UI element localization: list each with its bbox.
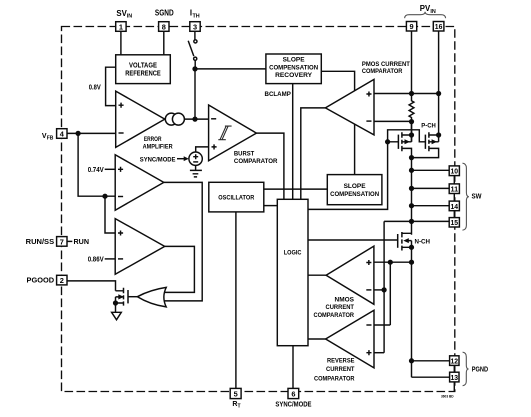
svg-text:PMOS CURRENT: PMOS CURRENT	[362, 61, 411, 68]
pin 11	[449, 184, 459, 194]
pmos current comparator	[325, 79, 374, 134]
node plus-rail pin16 junction	[437, 92, 441, 96]
label REVERSE CURRENT COMPARATOR	[314, 358, 355, 383]
svg-text:0.74V: 0.74V	[88, 167, 104, 174]
wire PGND to pin 12	[412, 360, 450, 362]
wire reverse comparator minus input	[374, 324, 390, 326]
ground triangle below pgood transistor	[112, 312, 122, 320]
wire burst output to logic	[256, 133, 284, 199]
svg-text:COMPARATOR: COMPARATOR	[234, 158, 278, 165]
ground below summing circle	[190, 165, 202, 177]
pin 12	[450, 356, 459, 366]
pin 2	[57, 275, 67, 285]
pmos power transistor right	[412, 132, 439, 157]
wire logic to pmos gate	[308, 142, 388, 210]
pin 8	[159, 22, 169, 32]
node VFB second junction	[103, 194, 107, 198]
pin 14	[449, 201, 459, 211]
wire pin8 to voltage reference	[163, 31, 165, 55]
svg-text:RUN: RUN	[74, 239, 90, 246]
node SW pin10	[410, 168, 414, 172]
wire logic to nmos gate	[308, 239, 398, 241]
wire 0.86V comparator output to OR gate upper input	[164, 246, 194, 292]
pin 6	[288, 388, 299, 398]
pin 13	[450, 372, 459, 382]
slope compensation block	[327, 175, 382, 205]
label 0.74V with stub	[88, 167, 116, 174]
svg-text:3: 3	[193, 22, 197, 31]
svg-text:0.86V: 0.86V	[88, 257, 104, 264]
summing node circle with plus/minus	[189, 152, 202, 165]
wire reverse comparator plus input	[374, 352, 384, 354]
svg-text:P-CH: P-CH	[421, 122, 436, 129]
svg-text:16: 16	[435, 22, 443, 31]
pin 15	[449, 218, 459, 228]
node burst minus junction	[193, 117, 197, 121]
svg-text:BURST: BURST	[234, 151, 255, 158]
wire pmos comparator plus rail	[374, 93, 439, 95]
node SW P-CH drain junction	[410, 156, 414, 160]
logic block	[277, 199, 308, 345]
wire EA output node down to burst comparator minus	[194, 69, 196, 119]
wire nmos comparator plus input	[374, 261, 412, 263]
reverse current comparator	[326, 310, 374, 368]
svg-text:OSCILLATOR: OSCILLATOR	[218, 195, 254, 202]
node pmos gate junction	[386, 140, 390, 144]
label SYNC/MODE with arrow	[140, 156, 189, 163]
node SW pin15	[410, 220, 414, 224]
pin 16	[433, 22, 444, 32]
svg-text:PGND: PGND	[472, 367, 488, 374]
label VFB	[42, 133, 54, 142]
node nmos plus branch junction	[388, 260, 392, 264]
nmos current comparator	[326, 246, 374, 304]
svg-text:1: 1	[119, 22, 123, 31]
svg-text:7: 7	[60, 237, 64, 246]
node nmos minus junction	[382, 288, 386, 292]
svg-text:RECOVERY: RECOVERY	[275, 72, 313, 79]
wire pmos comparator output to logic	[301, 108, 326, 199]
wire oscillator to slope compensation	[264, 188, 328, 190]
node right pmos source dot	[437, 133, 441, 137]
svg-text:TH: TH	[193, 13, 200, 19]
svg-text:CURRENT: CURRENT	[326, 304, 355, 311]
wire oscillator to logic	[264, 205, 278, 207]
wire pin12 to pin13 link	[453, 365, 455, 372]
oscillator block	[209, 182, 264, 212]
brace PGND pins	[463, 352, 469, 386]
wire nmos comparator minus input	[374, 289, 384, 291]
node VFB junction	[76, 132, 80, 136]
node nmos plus rail junction	[410, 260, 414, 264]
label PMOS CURRENT COMPARATOR	[362, 61, 411, 75]
wire burst plus input to summing circle	[196, 147, 209, 152]
label ITH	[190, 8, 200, 19]
wire SW to pin 14	[412, 205, 450, 207]
label PVIN	[420, 4, 436, 15]
wire pin14-15 link	[453, 211, 455, 218]
0.86V comparator	[115, 219, 165, 275]
pin 10	[449, 166, 459, 176]
svg-text:PGOOD: PGOOD	[27, 278, 55, 285]
wire SW branch down to reverse comparator plus	[383, 221, 385, 352]
svg-text:CURRENT: CURRENT	[326, 366, 355, 373]
voltage reference block U-VREF	[116, 55, 171, 84]
pin 3	[190, 22, 200, 32]
slope compensation recovery block	[266, 54, 321, 84]
svg-text:NMOS: NMOS	[335, 296, 355, 303]
svg-text:RUN/SS: RUN/SS	[26, 239, 55, 246]
svg-text:COMPARATOR: COMPARATOR	[314, 375, 355, 382]
wire oscillator to pin 5 RT	[235, 212, 237, 389]
wire pin11-14 link	[453, 194, 455, 202]
svg-text:COMPENSATION: COMPENSATION	[330, 191, 379, 198]
wire VFB down to 0.74V comparator minus	[78, 133, 115, 196]
wire mirror to burst comparator minus	[184, 118, 208, 120]
pgood transistor Q-PGOOD	[116, 288, 129, 313]
svg-text:11: 11	[451, 185, 459, 194]
wire SW to pin 11	[412, 187, 450, 189]
wire 0.74V comparator output to OR gate lower input	[164, 182, 202, 301]
node left pmos source dot	[410, 133, 414, 137]
pin 5	[230, 388, 241, 398]
svg-text:ERROR: ERROR	[144, 136, 162, 143]
svg-text:COMPENSATION: COMPENSATION	[269, 64, 318, 71]
wire BCLAMP from recovery box to logic	[292, 84, 294, 200]
wire pin1 to voltage reference	[120, 31, 122, 55]
label 0.86V with stub	[88, 257, 116, 264]
svg-text:PV: PV	[420, 4, 431, 13]
node SW pin14	[410, 204, 414, 208]
wire 0.8V reference to error amp + input	[106, 67, 116, 105]
wire EA output node to slope compensation recovery	[195, 68, 266, 70]
svg-text:VOLTAGE: VOLTAGE	[129, 62, 157, 69]
svg-text:FB: FB	[47, 136, 54, 142]
wire nmos comparator output to logic	[308, 274, 326, 276]
wire nmos plus branch down to reverse comparator minus	[389, 262, 391, 325]
wire pin13 to frame	[453, 382, 455, 392]
sense resistor	[409, 94, 414, 122]
node plus-rail pin9 junction	[410, 92, 414, 96]
wire pmos comparator minus to sense node	[374, 120, 412, 122]
wire reverse comparator output to logic	[308, 338, 326, 340]
wire PGND to pin 13	[412, 376, 450, 378]
node PGND junction	[410, 359, 414, 363]
wire VFB down to 0.86V comparator plus	[105, 196, 115, 233]
wire pin 9 down	[411, 31, 413, 93]
error amplifier EA	[116, 91, 165, 147]
svg-text:REVERSE: REVERSE	[327, 358, 355, 365]
label BURST COMPARATOR	[234, 151, 278, 165]
IC boundary dashed frame	[62, 27, 455, 392]
current mirror symbol at EA output	[165, 113, 184, 125]
wire logic to pin 6 SYNC/MODE	[292, 346, 294, 389]
wire pin 16 down to right pmos source	[438, 31, 440, 142]
hysteresis symbol inside burst comparator	[218, 126, 231, 140]
wire pmos gates tie	[388, 130, 426, 142]
svg-text:COMPARATOR: COMPARATOR	[314, 312, 355, 319]
svg-text:12: 12	[451, 357, 459, 366]
svg-text:13: 13	[451, 373, 459, 382]
svg-text:6: 6	[291, 389, 295, 398]
svg-text:AMPLIFIER: AMPLIFIER	[143, 144, 173, 151]
svg-text:SGND: SGND	[155, 8, 174, 17]
wire recovery box to pmos comparator top edge	[321, 71, 354, 91]
svg-text:0.8V: 0.8V	[89, 85, 101, 92]
svg-text:IN: IN	[127, 14, 132, 20]
OR gate driving pgood transistor	[128, 287, 166, 307]
svg-text:10: 10	[451, 167, 459, 176]
svg-text:3603 BD: 3603 BD	[441, 394, 454, 398]
pin 7	[57, 237, 67, 247]
node SW pin11	[410, 187, 414, 191]
node ITH/EA output junction	[193, 67, 197, 71]
svg-text:SLOPE: SLOPE	[283, 57, 306, 64]
svg-text:9: 9	[409, 22, 413, 31]
node pgood source junction	[114, 301, 118, 305]
nmos power transistor	[398, 232, 412, 251]
wire pin2 PGOOD to pgood transistor drain	[67, 281, 116, 291]
svg-text:5: 5	[234, 389, 238, 398]
label RT	[232, 401, 240, 410]
wire slope compensation to pmos comparator bottom edge	[354, 124, 356, 175]
pmos power transistor left	[398, 122, 411, 158]
svg-text:REFERENCE: REFERENCE	[125, 71, 161, 78]
svg-text:SW: SW	[472, 194, 482, 201]
svg-text:COMPARATOR: COMPARATOR	[362, 68, 403, 75]
svg-text:BCLAMP: BCLAMP	[265, 91, 292, 98]
svg-text:N-CH: N-CH	[415, 238, 431, 245]
svg-text:IN: IN	[430, 9, 435, 15]
node sense resistor bottom	[410, 120, 414, 124]
svg-text:LOGIC: LOGIC	[284, 250, 302, 257]
pin 4	[57, 129, 67, 139]
pin 9	[406, 22, 416, 32]
pin 1	[116, 22, 126, 32]
wire pin4 VFB to error amp minus	[67, 132, 116, 134]
svg-text:T: T	[238, 404, 241, 410]
wire SW to pin 15 and nmos comparator branch	[384, 220, 449, 222]
svg-text:8: 8	[162, 22, 166, 31]
node nmos source dot	[410, 245, 414, 249]
svg-text:15: 15	[451, 218, 459, 227]
wire SW to pin 10	[412, 169, 450, 171]
label RUN at pin 7	[67, 239, 89, 246]
svg-text:14: 14	[451, 202, 459, 211]
SW rail vertical	[411, 122, 413, 378]
label NMOS CURRENT COMPARATOR	[314, 296, 355, 319]
brace SW pins	[463, 163, 469, 230]
brace over PVIN pins	[405, 12, 446, 18]
svg-text:SYNC/MODE: SYNC/MODE	[140, 157, 176, 164]
label ERROR AMPLIFIER	[143, 136, 173, 151]
burst comparator	[209, 105, 257, 161]
0.74V comparator	[115, 155, 164, 211]
pin 3 switch (ITH burst defeat)	[188, 31, 197, 69]
svg-text:SYNC/MODE: SYNC/MODE	[275, 401, 311, 408]
label SVIN	[116, 9, 132, 20]
wire pin10-11 link	[453, 176, 455, 184]
svg-text:SLOPE: SLOPE	[344, 183, 367, 190]
svg-text:2: 2	[60, 276, 64, 285]
